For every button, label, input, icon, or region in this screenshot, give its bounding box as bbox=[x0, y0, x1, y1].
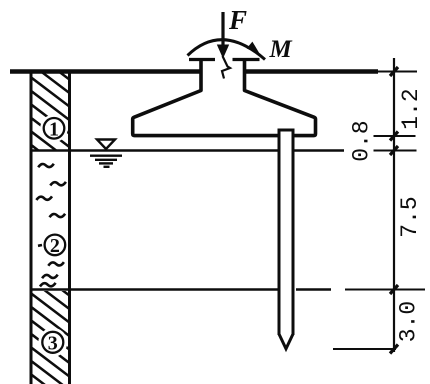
circled label 1 bbox=[44, 118, 65, 139]
soil column hatch layer 1 bbox=[20, 42, 90, 203]
svg-text:M: M bbox=[269, 36, 293, 63]
circled label 3 halo bbox=[38, 328, 67, 357]
extension line water level bbox=[374, 150, 417, 152]
force F arrowhead bbox=[217, 45, 229, 59]
dimension ticks bbox=[390, 67, 398, 354]
moment M arc bbox=[188, 40, 266, 60]
moment M arrowhead bbox=[247, 42, 260, 54]
svg-text:2: 2 bbox=[50, 235, 60, 257]
layer boundary 2/3 bbox=[30, 288, 332, 291]
svg-text:7.5: 7.5 bbox=[397, 196, 423, 237]
circled label 2 bbox=[45, 235, 66, 256]
svg-text:3.0: 3.0 bbox=[396, 301, 422, 342]
column cap right segment bbox=[233, 58, 260, 61]
svg-text:1: 1 bbox=[49, 118, 59, 140]
ground level extension line bbox=[378, 71, 417, 73]
layer boundary 1/2 and water line bbox=[30, 149, 345, 152]
ground line left segment bbox=[10, 69, 200, 74]
extension line pile tip level bbox=[333, 348, 396, 350]
circled label 1 halo bbox=[40, 115, 68, 143]
soil column left border bbox=[30, 71, 33, 384]
ground line right segment bbox=[246, 69, 378, 74]
svg-text:0.8: 0.8 bbox=[349, 120, 375, 161]
column cap left segment bbox=[189, 58, 215, 61]
layer 2 tilde marks bbox=[36, 164, 66, 287]
soil column hatch layer 3 bbox=[20, 258, 90, 384]
force F arrow shaft bbox=[221, 12, 224, 47]
svg-text:3: 3 bbox=[48, 332, 58, 354]
column break zigzag bbox=[222, 56, 230, 79]
extension line footing base level bbox=[374, 135, 416, 137]
circled label 3 bbox=[42, 332, 63, 353]
svg-text:1.2: 1.2 bbox=[398, 88, 424, 129]
extension line layer 2/3 level bbox=[345, 289, 425, 291]
dimension line vertical bbox=[393, 58, 395, 352]
pile bbox=[278, 130, 295, 349]
svg-text:F: F bbox=[228, 5, 247, 35]
water table symbol bbox=[90, 140, 122, 167]
soil column right border bbox=[68, 71, 71, 384]
footing pedestal and slab outline bbox=[133, 58, 316, 136]
